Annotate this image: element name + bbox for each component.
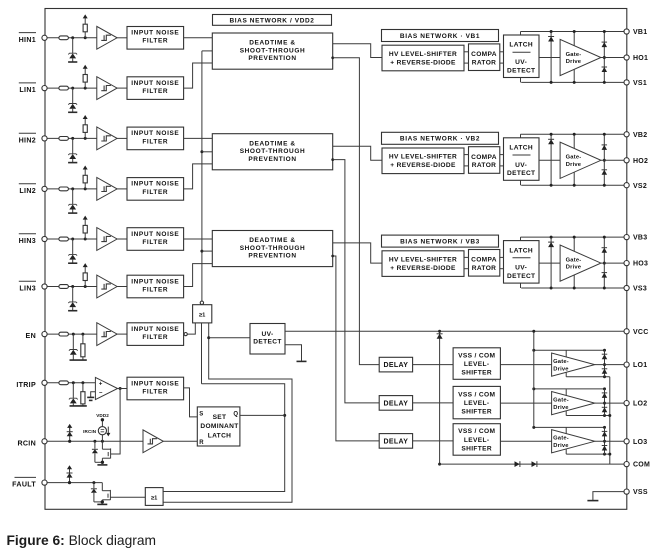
svg-text:DELAY: DELAY bbox=[383, 362, 408, 369]
svg-text:INPUT NOISE: INPUT NOISE bbox=[131, 80, 179, 87]
svg-text:RCIN: RCIN bbox=[17, 439, 36, 447]
svg-text:HIN2: HIN2 bbox=[19, 136, 36, 144]
svg-text:BIAS NETWORK / VB3: BIAS NETWORK / VB3 bbox=[400, 239, 480, 246]
svg-text:HV LEVEL-SHIFTER: HV LEVEL-SHIFTER bbox=[389, 154, 457, 161]
svg-text:COMPA: COMPA bbox=[471, 51, 497, 58]
svg-text:HV LEVEL-SHIFTER: HV LEVEL-SHIFTER bbox=[389, 51, 457, 58]
svg-text:LIN1: LIN1 bbox=[19, 86, 36, 94]
svg-text:FILTER: FILTER bbox=[142, 286, 168, 293]
svg-text:DETECT: DETECT bbox=[507, 67, 535, 74]
svg-text:R: R bbox=[199, 440, 204, 446]
svg-text:HO3: HO3 bbox=[633, 261, 648, 268]
svg-text:INPUT NOISE: INPUT NOISE bbox=[131, 231, 179, 238]
svg-text:VSS / COM: VSS / COM bbox=[458, 352, 495, 359]
svg-text:EN: EN bbox=[26, 332, 36, 340]
svg-text:SHOOT-THROUGH: SHOOT-THROUGH bbox=[240, 47, 306, 54]
svg-text:VB1: VB1 bbox=[633, 29, 647, 36]
svg-text:Drive: Drive bbox=[566, 265, 582, 271]
svg-text:LATCH: LATCH bbox=[509, 247, 533, 254]
svg-text:FAULT: FAULT bbox=[12, 481, 36, 489]
svg-text:COMPA: COMPA bbox=[471, 257, 497, 264]
svg-text:BIAS NETWORK · VB2: BIAS NETWORK · VB2 bbox=[400, 136, 480, 143]
svg-text:COMPA: COMPA bbox=[471, 154, 497, 161]
svg-text:SHIFTER: SHIFTER bbox=[461, 370, 492, 377]
svg-text:≥1: ≥1 bbox=[199, 313, 206, 319]
svg-text:HIN1: HIN1 bbox=[19, 36, 36, 44]
svg-text:IRCIN: IRCIN bbox=[83, 429, 97, 434]
svg-text:FILTER: FILTER bbox=[142, 388, 168, 395]
svg-text:FILTER: FILTER bbox=[142, 88, 168, 95]
svg-text:INPUT NOISE: INPUT NOISE bbox=[131, 380, 179, 387]
svg-text:LO2: LO2 bbox=[633, 401, 647, 408]
svg-text:Drive: Drive bbox=[553, 366, 569, 372]
svg-text:LATCH: LATCH bbox=[509, 42, 533, 49]
svg-text:HO1: HO1 bbox=[633, 55, 648, 62]
svg-text:Gate-: Gate- bbox=[553, 436, 569, 442]
svg-text:LEVEL-: LEVEL- bbox=[464, 361, 490, 368]
svg-text:VS1: VS1 bbox=[633, 80, 647, 87]
svg-text:VS3: VS3 bbox=[633, 286, 647, 293]
svg-text:BIAS NETWORK / VDD2: BIAS NETWORK / VDD2 bbox=[229, 17, 314, 24]
svg-text:VB2: VB2 bbox=[633, 132, 647, 139]
svg-text:INPUT NOISE: INPUT NOISE bbox=[131, 278, 179, 285]
svg-text:LO1: LO1 bbox=[633, 362, 647, 369]
svg-text:RATOR: RATOR bbox=[472, 162, 497, 169]
svg-text:RATOR: RATOR bbox=[472, 265, 497, 272]
svg-text:Drive: Drive bbox=[566, 162, 582, 168]
svg-text:DEADTIME &: DEADTIME & bbox=[249, 40, 295, 47]
svg-text:PREVENTION: PREVENTION bbox=[248, 253, 296, 260]
svg-text:DELAY: DELAY bbox=[383, 438, 408, 445]
svg-text:RATOR: RATOR bbox=[472, 59, 497, 66]
svg-text:+ REVERSE-DIODE: + REVERSE-DIODE bbox=[390, 59, 456, 66]
svg-text:LIN2: LIN2 bbox=[19, 187, 36, 195]
svg-text:DETECT: DETECT bbox=[507, 273, 535, 280]
svg-text:DELAY: DELAY bbox=[383, 400, 408, 407]
svg-text:Gate-: Gate- bbox=[566, 155, 582, 161]
svg-text:VCC: VCC bbox=[633, 329, 649, 336]
svg-text:SET: SET bbox=[213, 414, 227, 421]
svg-text:UV-: UV- bbox=[515, 59, 527, 66]
svg-text:INPUT NOISE: INPUT NOISE bbox=[131, 181, 179, 188]
svg-text:LATCH: LATCH bbox=[208, 432, 232, 439]
svg-text:Drive: Drive bbox=[553, 443, 569, 449]
svg-text:INPUT NOISE: INPUT NOISE bbox=[131, 30, 179, 37]
svg-text:HV LEVEL-SHIFTER: HV LEVEL-SHIFTER bbox=[389, 257, 457, 264]
svg-text:DETECT: DETECT bbox=[507, 170, 535, 177]
svg-text:BIAS NETWORK · VB1: BIAS NETWORK · VB1 bbox=[400, 33, 480, 40]
svg-text:VS2: VS2 bbox=[633, 183, 647, 190]
svg-text:LATCH: LATCH bbox=[509, 145, 533, 152]
svg-text:FILTER: FILTER bbox=[142, 138, 168, 145]
svg-text:UV-: UV- bbox=[515, 162, 527, 169]
svg-text:DETECT: DETECT bbox=[253, 339, 281, 346]
svg-text:LO3: LO3 bbox=[633, 439, 647, 446]
svg-text:LEVEL-: LEVEL- bbox=[464, 400, 490, 407]
svg-text:PREVENTION: PREVENTION bbox=[248, 156, 296, 163]
svg-text:Gate-: Gate- bbox=[566, 258, 582, 264]
svg-text:+: + bbox=[99, 382, 103, 388]
svg-text:VDD2: VDD2 bbox=[96, 413, 109, 418]
svg-text:Drive: Drive bbox=[566, 59, 582, 65]
svg-text:S: S bbox=[199, 411, 203, 417]
svg-text:DEADTIME &: DEADTIME & bbox=[249, 237, 295, 244]
svg-text:PREVENTION: PREVENTION bbox=[248, 55, 296, 62]
svg-text:HO2: HO2 bbox=[633, 158, 648, 165]
svg-text:+ REVERSE-DIODE: + REVERSE-DIODE bbox=[390, 265, 456, 272]
svg-text:COM: COM bbox=[633, 462, 650, 469]
svg-text:Q: Q bbox=[233, 411, 238, 417]
svg-text:FILTER: FILTER bbox=[142, 239, 168, 246]
svg-text:DEADTIME &: DEADTIME & bbox=[249, 140, 295, 147]
svg-text:SHIFTER: SHIFTER bbox=[461, 409, 492, 416]
svg-text:ITRIP: ITRIP bbox=[16, 381, 36, 389]
svg-text:FILTER: FILTER bbox=[142, 38, 168, 45]
svg-text:LEVEL-: LEVEL- bbox=[464, 437, 490, 444]
svg-text:SHOOT-THROUGH: SHOOT-THROUGH bbox=[240, 245, 306, 252]
svg-text:SHIFTER: SHIFTER bbox=[461, 445, 492, 452]
svg-text:FILTER: FILTER bbox=[142, 189, 168, 196]
svg-text:Gate-: Gate- bbox=[553, 359, 569, 365]
svg-text:VSS: VSS bbox=[633, 489, 648, 496]
svg-text:INPUT NOISE: INPUT NOISE bbox=[131, 130, 179, 137]
svg-text:LIN3: LIN3 bbox=[19, 285, 36, 293]
svg-text:SHOOT-THROUGH: SHOOT-THROUGH bbox=[240, 148, 306, 155]
svg-text:Drive: Drive bbox=[553, 405, 569, 411]
svg-text:DOMINANT: DOMINANT bbox=[200, 423, 238, 430]
svg-text:≥1: ≥1 bbox=[151, 495, 158, 501]
svg-text:UV-: UV- bbox=[515, 265, 527, 272]
svg-text:UV-: UV- bbox=[261, 331, 273, 338]
svg-text:Gate-: Gate- bbox=[566, 52, 582, 58]
svg-text:VB3: VB3 bbox=[633, 235, 647, 242]
svg-text:VSS / COM: VSS / COM bbox=[458, 428, 495, 435]
svg-text:−: − bbox=[99, 391, 103, 397]
svg-text:VSS / COM: VSS / COM bbox=[458, 391, 495, 398]
svg-text:Figure 6: Block diagram: Figure 6: Block diagram bbox=[7, 533, 157, 548]
svg-text:+ REVERSE-DIODE: + REVERSE-DIODE bbox=[390, 162, 456, 169]
svg-text:INPUT NOISE: INPUT NOISE bbox=[131, 326, 179, 333]
svg-text:HIN3: HIN3 bbox=[19, 237, 36, 245]
svg-text:Gate-: Gate- bbox=[553, 398, 569, 404]
svg-text:FILTER: FILTER bbox=[142, 334, 168, 341]
